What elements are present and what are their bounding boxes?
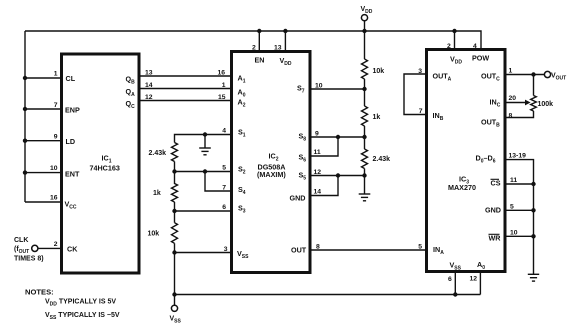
svg-text:12: 12 bbox=[314, 169, 322, 176]
svg-text:6: 6 bbox=[222, 204, 226, 211]
svg-text:3: 3 bbox=[418, 68, 422, 75]
svg-text:CL: CL bbox=[66, 74, 76, 83]
svg-text:5: 5 bbox=[418, 244, 422, 251]
svg-text:11: 11 bbox=[510, 177, 517, 184]
svg-text:4: 4 bbox=[222, 128, 226, 135]
svg-text:13: 13 bbox=[145, 70, 153, 77]
svg-text:5: 5 bbox=[222, 165, 226, 172]
svg-text:15: 15 bbox=[218, 94, 226, 101]
svg-text:10k: 10k bbox=[148, 231, 160, 238]
svg-text:14: 14 bbox=[145, 82, 153, 89]
svg-text:8: 8 bbox=[509, 112, 513, 119]
svg-text:12: 12 bbox=[145, 94, 153, 101]
svg-text:2: 2 bbox=[54, 241, 58, 248]
svg-text:2.43k: 2.43k bbox=[149, 150, 167, 157]
svg-text:6: 6 bbox=[448, 276, 452, 283]
svg-text:(MAXIM): (MAXIM) bbox=[257, 170, 286, 179]
svg-text:1: 1 bbox=[222, 82, 226, 89]
svg-text:1k: 1k bbox=[153, 190, 161, 197]
svg-text:5: 5 bbox=[510, 204, 514, 211]
svg-text:4: 4 bbox=[473, 43, 477, 50]
svg-text:ENP: ENP bbox=[65, 106, 80, 115]
svg-text:ENT: ENT bbox=[65, 170, 80, 179]
svg-text:9: 9 bbox=[54, 134, 58, 141]
svg-text:10: 10 bbox=[315, 83, 323, 90]
svg-text:1: 1 bbox=[54, 71, 58, 78]
svg-text:7: 7 bbox=[54, 102, 58, 109]
svg-text:2: 2 bbox=[252, 45, 256, 52]
svg-text:9: 9 bbox=[315, 131, 319, 138]
svg-text:74HC163: 74HC163 bbox=[90, 164, 120, 173]
svg-text:NOTES:: NOTES: bbox=[25, 288, 54, 297]
svg-text:CK: CK bbox=[67, 245, 78, 254]
svg-text:10: 10 bbox=[50, 165, 58, 172]
svg-text:2: 2 bbox=[447, 43, 451, 50]
svg-text:7: 7 bbox=[222, 185, 226, 192]
svg-text:16: 16 bbox=[50, 195, 58, 202]
svg-text:GND: GND bbox=[485, 206, 501, 215]
svg-text:8: 8 bbox=[316, 244, 320, 251]
svg-text:3: 3 bbox=[224, 246, 228, 253]
svg-text:CLK: CLK bbox=[14, 237, 28, 244]
svg-text:7: 7 bbox=[419, 108, 423, 115]
svg-text:13-19: 13-19 bbox=[509, 153, 527, 160]
svg-text:2.43k: 2.43k bbox=[373, 156, 391, 163]
svg-text:10k: 10k bbox=[373, 68, 385, 75]
svg-text:20: 20 bbox=[509, 95, 517, 102]
svg-text:OUT: OUT bbox=[291, 246, 307, 255]
svg-text:MAX270: MAX270 bbox=[448, 183, 476, 192]
svg-text:13: 13 bbox=[274, 45, 282, 52]
svg-text:1k: 1k bbox=[373, 114, 381, 121]
svg-text:100k: 100k bbox=[538, 101, 554, 108]
svg-text:TIMES 8): TIMES 8) bbox=[14, 256, 44, 263]
svg-text:16: 16 bbox=[217, 70, 225, 77]
svg-text:11: 11 bbox=[314, 149, 321, 156]
svg-text:LD: LD bbox=[66, 137, 76, 146]
svg-text:10: 10 bbox=[510, 230, 518, 237]
svg-text:12: 12 bbox=[470, 276, 478, 283]
svg-text:14: 14 bbox=[314, 189, 322, 196]
svg-text:1: 1 bbox=[509, 68, 513, 75]
svg-text:GND: GND bbox=[290, 194, 306, 203]
svg-text:POW: POW bbox=[472, 54, 489, 63]
svg-text:EN: EN bbox=[255, 56, 265, 65]
